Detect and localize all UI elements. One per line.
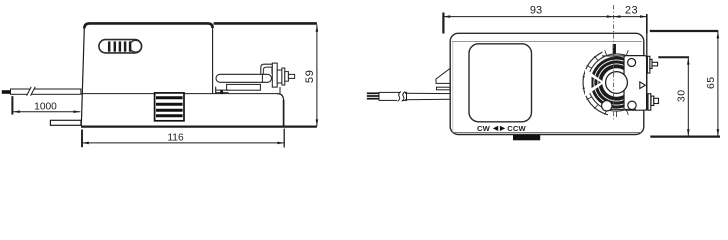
clamp V notch <box>585 69 605 97</box>
cable second segment to body <box>405 92 450 94</box>
base bottom edge (thick, continues as 59 dim bottom extension) <box>81 125 317 127</box>
clamp drop line <box>279 87 281 94</box>
dimension 23 tick <box>646 14 648 34</box>
dimension 30 line <box>687 58 689 136</box>
clamp foot black block <box>220 90 223 94</box>
body bottom seam <box>452 131 642 133</box>
wheel bottom chord <box>611 108 636 110</box>
shaft clamp bar (side view) <box>216 74 272 82</box>
plate triangle marker <box>640 82 646 89</box>
wheel tick marks <box>583 50 639 117</box>
clamp hook <box>261 64 277 74</box>
front body outline <box>450 33 644 134</box>
dimension 23 line <box>614 16 647 18</box>
grille vents <box>155 93 184 121</box>
dimension 93 line <box>443 16 613 18</box>
top bolt mid bar <box>650 59 652 68</box>
cable (front view) first segment <box>379 92 407 100</box>
body top seam <box>452 40 642 42</box>
cable strands (front view) <box>367 93 379 98</box>
svg-text:59: 59 <box>304 69 316 83</box>
dimension 116 right tick <box>283 129 285 148</box>
dimension 1000 tick <box>11 96 13 114</box>
mounting foot <box>513 135 540 140</box>
bottom extension <box>650 136 720 138</box>
strain relief wedge on left edge <box>436 69 450 84</box>
bottom-left wheel circle <box>602 101 612 111</box>
plate screw bottom <box>628 101 636 109</box>
svg-text:1000: 1000 <box>34 101 57 112</box>
svg-text:CCW: CCW <box>507 124 526 133</box>
bottom bolt mid bar <box>651 96 654 105</box>
top bolt stub <box>652 62 658 66</box>
base section seam line <box>81 93 277 95</box>
65 top extension <box>650 30 719 32</box>
base rounded top-right corner <box>277 94 284 101</box>
top bolt flange <box>647 56 650 73</box>
main body outline (side view) <box>81 23 212 126</box>
CW/CCW label <box>477 124 526 133</box>
cable (side view) <box>11 89 81 94</box>
svg-text:CW: CW <box>477 124 491 133</box>
shaft stack block 1 <box>277 70 282 83</box>
cable break marks <box>27 87 36 96</box>
clamp ring inner detail arcs <box>594 60 627 105</box>
svg-text:30: 30 <box>675 89 687 102</box>
base right edge <box>283 100 285 127</box>
clamp foot step lines <box>216 89 229 91</box>
wheel rim circle <box>588 54 645 111</box>
central shaft circle <box>606 72 628 94</box>
dimension 116 left tick <box>81 130 83 148</box>
clamp jaw wedge <box>592 77 602 88</box>
clamp end plate <box>272 63 277 87</box>
dimension 116 line <box>82 142 284 144</box>
svg-text:23: 23 <box>625 4 638 16</box>
manual override oval button <box>99 40 142 53</box>
anti-rotation bracket <box>50 120 81 125</box>
wheel top major tick <box>613 44 616 54</box>
cover opening <box>469 44 532 122</box>
centre dash-dot line <box>613 5 615 120</box>
30 top extension <box>658 56 689 58</box>
clamp dark C ring <box>591 57 632 109</box>
59 dim top extension (clamp section top edge) <box>214 22 317 25</box>
cable connector tip (side view) <box>2 90 11 94</box>
cable break squiggles <box>397 91 406 101</box>
bottom bolt flange <box>648 94 651 111</box>
shaft stub <box>288 74 294 78</box>
dimension 1000 line <box>13 111 80 113</box>
bottom bolt stub <box>654 98 659 103</box>
clamp label slot <box>227 84 261 90</box>
shaft stack block 3 <box>285 72 289 82</box>
shaft stack block 2 <box>282 68 285 85</box>
plate right edge heavy <box>646 34 648 111</box>
svg-text:65: 65 <box>705 76 717 89</box>
svg-text:116: 116 <box>167 132 184 143</box>
left edge tab <box>437 87 451 90</box>
dimension 65 line <box>717 31 719 136</box>
plate screw top <box>628 59 636 67</box>
wheel outer-left arc <box>583 52 608 115</box>
dimension 93 tick <box>442 13 444 34</box>
body left inner line <box>452 42 454 132</box>
svg-text:93: 93 <box>530 4 542 16</box>
dimension 59 line <box>316 25 318 127</box>
mounting plate <box>624 56 647 111</box>
wheel top chord <box>602 55 625 57</box>
clamp bar divider <box>261 74 263 82</box>
